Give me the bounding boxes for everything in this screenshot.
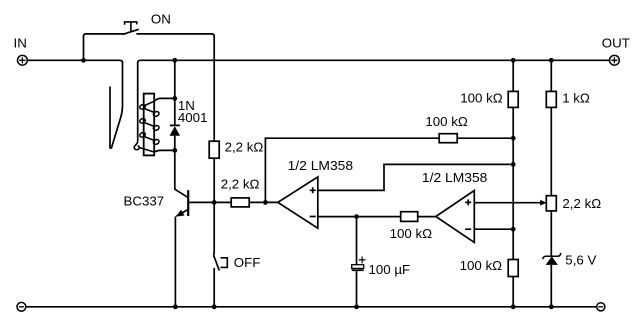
svg-text:IN: IN (14, 36, 27, 51)
wiper arrow (540, 200, 546, 206)
wire rail to 100k top (512, 60, 514, 91)
node junction A (81, 58, 86, 63)
node base junction (212, 200, 217, 205)
wire 1k to potentiometer (550, 107, 552, 195)
wire ON branch up and across (84, 34, 125, 60)
wire coil left feed (137, 62, 139, 141)
wire resistor to base junction (213, 158, 215, 202)
capacitor C1 100 uF (352, 217, 366, 307)
terminal minus bottom-left (17, 302, 26, 311)
wire OFF switch to bottom rail (213, 268, 215, 307)
wire ON switch to vertical drop (136, 34, 214, 37)
diode D1 1N4001 (170, 125, 180, 135)
node rail junction right (549, 58, 554, 63)
resistor 100 kOhm (top divider) (508, 91, 518, 107)
node emitter bottom junction (173, 304, 178, 309)
wire bottom rail (26, 306, 597, 308)
resistor 2,2 kOhm (vertical, ON branch) (209, 141, 219, 158)
relay coil K1 (134, 94, 160, 156)
wire bottom divider to rail (512, 277, 514, 307)
wire U2 -input to divider (474, 228, 513, 230)
wire rail to diode (174, 60, 176, 125)
node U2 -input junction (511, 227, 516, 232)
wire U1 +input to comparator reference (318, 164, 513, 190)
wire top rail right (relay coil to OUT) (138, 60, 610, 63)
wire diode to coil bottom junction (174, 136, 176, 151)
svg-text:100 µF: 100 µF (369, 262, 411, 277)
resistor 100 kOhm (U1 inverting input) (401, 212, 418, 222)
node bottom rail divider junction (511, 304, 516, 309)
wire coil top terminal (154, 98, 175, 101)
wire divider chain (512, 107, 514, 259)
svg-text:1/2 LM358: 1/2 LM358 (422, 170, 488, 185)
wire top rail left (IN to relay contact) (27, 60, 122, 63)
wire feedback resistor to divider node (457, 137, 513, 139)
svg-text:OFF: OFF (234, 255, 261, 270)
wire rail to 1k (550, 60, 552, 91)
terminal minus bottom-right (597, 303, 605, 311)
node op1 output junction (263, 200, 268, 205)
svg-text:100 kΩ: 100 kΩ (460, 258, 503, 273)
wire potentiometer to zener (550, 211, 552, 256)
svg-text:100 kΩ: 100 kΩ (460, 91, 503, 106)
wire ON drop down through rail (no connection) (213, 36, 215, 142)
terminal OUT (+) (610, 55, 620, 65)
wire zener to bottom rail (550, 265, 552, 307)
wire base junction down to OFF switch (213, 202, 216, 255)
node capacitor bottom junction (354, 304, 359, 309)
svg-text:100 kΩ: 100 kΩ (390, 226, 433, 241)
svg-text:2,2 kΩ: 2,2 kΩ (221, 177, 260, 192)
node bottom rail zener junction (549, 304, 554, 309)
svg-text:1/2 LM358: 1/2 LM358 (288, 158, 354, 173)
svg-text:1 kΩ: 1 kΩ (562, 91, 590, 106)
resistor 2,2 kOhm (base) (231, 198, 249, 207)
wire U2 +input to potentiometer wiper (474, 202, 541, 204)
svg-text:OUT: OUT (602, 36, 630, 51)
svg-text:2,2 kΩ: 2,2 kΩ (562, 196, 601, 211)
wire emitter down to bottom rail (174, 216, 176, 306)
node capacitor junction (354, 214, 359, 219)
switch ON pushbutton (123, 22, 139, 34)
op-amp U1 1/2 LM358 (278, 177, 318, 228)
wire U1 -input to 100k (318, 216, 401, 218)
wire 100k to U2 output (418, 216, 436, 218)
node coil bottom junction (172, 148, 177, 153)
wire base to junction (188, 201, 231, 203)
terminal IN (+) (18, 55, 28, 65)
svg-text:BC337: BC337 (124, 194, 165, 209)
op-amp U2 1/2 LM358 (436, 191, 475, 243)
node comparator ref junction (511, 162, 516, 167)
resistor 100 kOhm (bottom divider) (508, 260, 518, 277)
svg-text:5,6 V: 5,6 V (565, 253, 596, 268)
resistor 100 kOhm (feedback) (439, 134, 457, 143)
potentiometer 2,2 kOhm (546, 196, 556, 211)
wire coil bottom terminal (154, 150, 175, 152)
node feedback junction (511, 136, 516, 141)
wire collector from coil junction (175, 150, 188, 197)
svg-text:4001: 4001 (178, 110, 208, 125)
node rail junction divider (511, 58, 516, 63)
wire U1 feedback up and right (265, 138, 439, 202)
switch OFF pushbutton (NC) (214, 255, 228, 270)
node rail junction above coil (172, 58, 177, 63)
resistor 1 kOhm (546, 91, 556, 107)
svg-text:100 kΩ: 100 kΩ (425, 114, 468, 129)
svg-text:ON: ON (151, 12, 171, 27)
zener diode 5,6 V (543, 253, 561, 265)
relay contact (on IN rail) (110, 62, 123, 149)
svg-text:2,2 kΩ: 2,2 kΩ (225, 139, 264, 154)
wire base resistor to op-amp U1 output (249, 201, 278, 203)
node coil top junction (172, 96, 177, 101)
transistor Q1 BC337 (176, 190, 188, 216)
node OFF bottom junction (212, 304, 217, 309)
